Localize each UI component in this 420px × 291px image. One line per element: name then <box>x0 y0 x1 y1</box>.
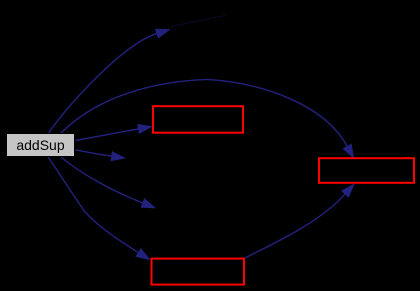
node middle red box <box>153 106 243 133</box>
wire edge addSup to bottom red box <box>48 157 138 252</box>
wire edge addSup to middle red box <box>76 129 139 141</box>
wire edge addSup to top hidden node <box>49 34 157 133</box>
node bottom red box <box>152 259 245 285</box>
wire edge addSup to hidden node lower <box>61 157 142 203</box>
node right red box <box>319 158 414 183</box>
node addSup <box>7 134 75 157</box>
wire edge addSup to hidden node right <box>76 150 112 156</box>
wire faint continuation at top arrow <box>171 16 225 27</box>
wire edge addSup over top to right red box <box>61 79 347 146</box>
svg-text:addSup: addSup <box>16 137 64 153</box>
wire edge bottom red box to right red box <box>245 194 345 258</box>
